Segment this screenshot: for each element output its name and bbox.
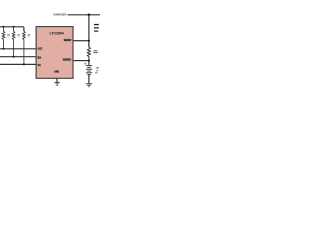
svg-text:CHARGER: CHARGER (53, 12, 67, 16)
background (0, 0, 100, 100)
node: SENSE+ junction (88, 40, 90, 42)
node: R2 to SDA wire (13, 56, 15, 58)
ground: battery negative (86, 84, 92, 87)
wire: SCL line to left edge (0, 63, 36, 65)
wire: ALCC line to left edge (0, 48, 36, 50)
node: R1 to ALCC wire (3, 48, 5, 50)
node: rail junction at R1 (3, 26, 5, 28)
wire: SENSE- to sense node (73, 60, 89, 62)
resistor RSENSE 50mOhm (87, 41, 97, 61)
node: R3 to SCL wire (23, 63, 25, 65)
svg-text:GND: GND (54, 70, 59, 74)
resistor R1 (pull-up on ALCC) (2, 27, 10, 49)
load connector bars (right edge) (94, 24, 99, 32)
wire: sense vertical from rail (88, 15, 90, 47)
ground: under IC GND pin (54, 78, 60, 85)
resistor R2 (pull-up on SDA) (12, 27, 20, 57)
wire: SDA line to left edge (0, 56, 36, 58)
wire: charger top rail (68, 14, 101, 16)
wire: SENSE+ to sense node (73, 40, 89, 42)
svg-text:ALCC: ALCC (38, 46, 43, 50)
resistor R3 (pull-up on SCL) (23, 31, 31, 64)
battery BT1 multicell stack (86, 61, 92, 84)
wire: pull-up supply rail (top left) (0, 27, 24, 32)
battery label LITHIUM (96, 70, 98, 71)
battery plus sign (84, 63, 86, 65)
node: charger rail junction (88, 14, 91, 16)
battery label MULTICELL (96, 67, 99, 68)
svg-text:LTC2944: LTC2944 (50, 32, 64, 36)
IC U1 LTC2944 body (36, 27, 73, 79)
svg-text:SCL: SCL (38, 63, 42, 67)
node: rail junction at R2 (13, 26, 15, 28)
svg-text:SENSE⁺: SENSE⁺ (64, 38, 72, 42)
battery label BATTERY (95, 72, 98, 73)
svg-text:SENSE⁻: SENSE⁻ (63, 58, 72, 62)
node: SENSE- junction (88, 60, 90, 62)
svg-text:SDA: SDA (38, 55, 42, 59)
